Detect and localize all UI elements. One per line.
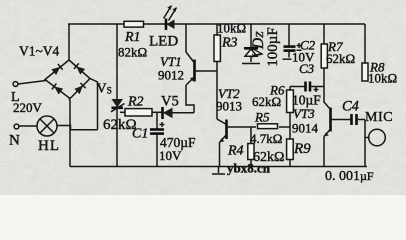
svg-text:LED: LED [149, 34, 178, 50]
svg-text:V1~V4: V1~V4 [19, 44, 60, 59]
svg-text:9014: 9014 [292, 121, 319, 136]
svg-text:82kΩ: 82kΩ [118, 45, 147, 60]
svg-text:R9: R9 [293, 141, 311, 157]
svg-text:C3: C3 [299, 61, 315, 76]
svg-text:MIC: MIC [365, 110, 393, 125]
svg-text:VT3: VT3 [293, 106, 315, 121]
svg-text:10kΩ: 10kΩ [217, 21, 246, 36]
svg-text:100µF: 100µF [265, 27, 281, 67]
svg-text:N: N [9, 133, 20, 149]
svg-text:R3: R3 [221, 36, 238, 51]
svg-text:10kΩ: 10kΩ [368, 71, 397, 86]
svg-text:R2: R2 [127, 95, 144, 110]
svg-text:220V: 220V [13, 100, 43, 115]
svg-text:4.7kΩ: 4.7kΩ [250, 131, 282, 146]
svg-text:62kΩ: 62kΩ [252, 94, 281, 109]
svg-text:9013: 9013 [216, 99, 242, 114]
svg-text:ybx8.cn: ybx8.cn [227, 161, 271, 176]
svg-text:9012: 9012 [158, 68, 184, 83]
svg-text:C4: C4 [342, 99, 359, 115]
svg-text:R5: R5 [254, 110, 270, 125]
svg-text:0. 001µF: 0. 001µF [325, 169, 374, 184]
svg-text:R1: R1 [124, 30, 141, 45]
svg-text:62kΩ: 62kΩ [326, 51, 355, 66]
svg-text:V5: V5 [161, 94, 179, 110]
svg-text:C1: C1 [132, 127, 148, 142]
svg-text:HL: HL [38, 138, 60, 154]
svg-text:R4: R4 [227, 144, 244, 159]
svg-text:10V: 10V [159, 148, 182, 163]
